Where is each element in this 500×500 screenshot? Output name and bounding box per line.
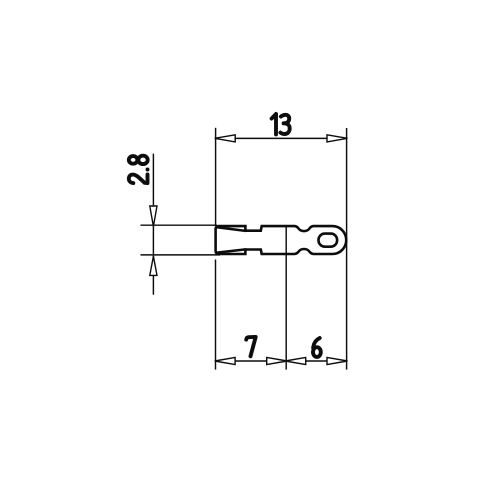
extension line left (dim 13) xyxy=(215,128,217,226)
arrow left (dim 13) xyxy=(215,135,236,142)
arrow left (dim 7) xyxy=(215,357,235,364)
text 6 xyxy=(313,338,321,357)
dimension line 2.8 xyxy=(152,154,154,295)
extension line bottom (dim 2.8) xyxy=(141,254,221,256)
digit 2 xyxy=(129,174,148,183)
digit 1 xyxy=(272,114,276,134)
wedge inner edge top xyxy=(217,227,246,231)
arrow down (dim 2.8) xyxy=(150,206,157,227)
part outline (clip side view) xyxy=(216,226,347,254)
extension line left-bottom (dim 7) xyxy=(215,260,217,370)
arrow right (dim 13) xyxy=(327,135,348,142)
arrow up (dim 2.8) xyxy=(150,256,157,275)
period xyxy=(146,167,150,171)
arrow right (dim 6) xyxy=(327,357,348,364)
digit 8 xyxy=(129,156,138,164)
extension line middle (dims 7/6) xyxy=(285,227,287,370)
text 2.8 (rotated) xyxy=(129,156,148,183)
extension line top (dim 2.8) xyxy=(141,224,218,226)
digit 3 xyxy=(280,115,289,134)
arrow right (dim 7) xyxy=(267,357,288,364)
text 13 xyxy=(272,114,290,134)
text 7 xyxy=(246,337,256,356)
extension line right (dims 13 and 6) xyxy=(346,128,348,370)
hole in head xyxy=(319,234,338,247)
dimension line 7 and 6 xyxy=(216,360,347,362)
wedge inner edge bottom xyxy=(217,249,246,252)
arrow left (dim 6) xyxy=(285,357,306,364)
dimension line 13 xyxy=(216,137,347,139)
